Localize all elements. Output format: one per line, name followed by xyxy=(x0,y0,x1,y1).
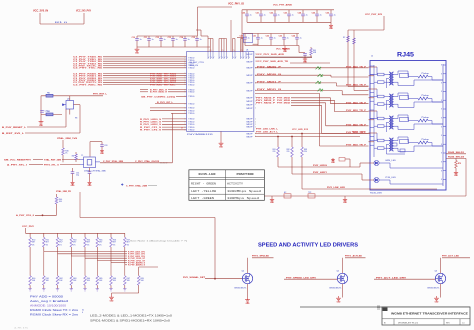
svg-text:R_PHY_CF2_S: R_PHY_CF2_S xyxy=(140,130,162,132)
title block side mark xyxy=(377,306,380,309)
svg-text:PHY1_XTL_O: PHY1_XTL_O xyxy=(44,164,59,166)
resistor RA6 top 4.7K xyxy=(96,233,98,237)
ground array column xyxy=(83,288,86,290)
svg-text:TXD0: TXD0 xyxy=(188,111,194,113)
ground array xyxy=(111,295,113,297)
svg-text:.1u: .1u xyxy=(291,15,294,17)
capacitor C11 0.1uF xyxy=(148,36,150,39)
svg-text:V: V xyxy=(246,57,247,59)
transistor Q4 xyxy=(242,273,252,283)
svg-text:TXD0: TXD0 xyxy=(188,130,194,132)
svg-text:C12: C12 xyxy=(156,37,159,39)
svg-text:XTAL_25M_PD: XTAL_25M_PD xyxy=(56,190,72,193)
wire unit 2 secondary xyxy=(394,96,398,98)
svg-text:.1u: .1u xyxy=(273,38,276,40)
wire cap bank bus top xyxy=(137,35,198,37)
svg-text:LEFT -GREEN: LEFT -GREEN xyxy=(191,197,215,200)
svg-text:C3_PHY_TXC_R5: C3_PHY_TXC_R5 xyxy=(73,68,103,70)
ground C31 xyxy=(72,181,74,183)
wire fan row xyxy=(110,247,112,263)
wire lnk long xyxy=(302,188,437,190)
wire array top bus xyxy=(25,228,27,233)
capacitor CT4 center tap xyxy=(387,143,390,145)
resistor pullup group above U1 xyxy=(207,39,209,53)
svg-text:4K7: 4K7 xyxy=(46,242,49,244)
svg-text:17: 17 xyxy=(181,128,183,130)
svg-text:TXD0: TXD0 xyxy=(188,127,194,129)
svg-text:TXD0: TXD0 xyxy=(188,84,194,86)
svg-text:75ohm: 75ohm xyxy=(421,95,430,97)
svg-text:S/B_VCC_RESETPHY: S/B_VCC_RESETPHY xyxy=(4,159,32,161)
wire rj45 right bus xyxy=(442,64,444,186)
svg-text:Q4: Q4 xyxy=(242,271,245,273)
ground Q5 xyxy=(338,296,340,298)
svg-text:V: V xyxy=(213,57,214,59)
svg-text:PHY1_ACTLED: PHY1_ACTLED xyxy=(345,254,362,257)
wire pin row 107.9 xyxy=(150,107,187,109)
wire drain net Q6 xyxy=(442,257,470,259)
svg-text:A_PHY_CFG_0: A_PHY_CFG_0 xyxy=(16,214,35,217)
wire fan row xyxy=(43,247,45,252)
wire rj45 vcc L xyxy=(383,16,385,30)
svg-text:PHY/M88E1111: PHY/M88E1111 xyxy=(187,134,215,136)
svg-text:WGM8 ETHERNET TRANSCEIVER INTE: WGM8 ETHERNET TRANSCEIVER INTERFACE xyxy=(391,312,468,316)
svg-text:.1u: .1u xyxy=(277,15,280,17)
wire fan row xyxy=(70,247,72,256)
transformer T4 xyxy=(389,138,391,151)
svg-text:C21: C21 xyxy=(256,13,259,15)
svg-text:C_PHY_XTAL_25M: C_PHY_XTAL_25M xyxy=(126,185,147,188)
svg-text:.1u: .1u xyxy=(199,39,202,41)
wire unit 1 in xyxy=(369,66,378,68)
svg-text:PHY1_LNK: PHY1_LNK xyxy=(352,132,366,134)
svg-text:BSS138LT1: BSS138LT1 xyxy=(235,288,247,290)
svg-text:LEFT -YELLOW: LEFT -YELLOW xyxy=(191,190,217,193)
resistor RA7 top 4.7K xyxy=(110,233,112,237)
svg-text:PHY_MDI_TR_P: PHY_MDI_TR_P xyxy=(346,102,367,104)
svg-text:TXD0: TXD0 xyxy=(188,67,194,69)
svg-text:R1 0: R1 0 xyxy=(55,22,69,24)
svg-text:ANMODE: 10/100/1000: ANMODE: 10/100/1000 xyxy=(30,303,67,307)
wire PHY_MDI1_N xyxy=(255,90,342,92)
connector J2 RJ45 box xyxy=(370,61,446,191)
svg-text:VCC_LED_2V5: VCC_LED_2V5 xyxy=(292,129,309,131)
wire rj45 left bus xyxy=(373,65,375,157)
svg-text:.1u: .1u xyxy=(187,39,190,41)
wire gate driver 1 xyxy=(205,278,242,280)
resistor R82 xyxy=(291,137,293,148)
ground reset rail xyxy=(40,120,42,122)
svg-text:4K7: 4K7 xyxy=(73,242,76,244)
svg-text:VCC_PHY_SHD_AVD_TR: VCC_PHY_SHD_AVD_TR xyxy=(256,60,289,63)
ground chassis left xyxy=(271,196,273,198)
wire cap bank bus bottom xyxy=(137,46,210,48)
LED green in RJ45 xyxy=(374,160,379,165)
wire source Q4 xyxy=(247,284,249,298)
capacitor C15 0.1uF xyxy=(196,36,198,39)
wire chassis to shield xyxy=(465,158,467,196)
svg-text:C23: C23 xyxy=(284,13,287,15)
svg-text:PHY_MDI1_P: PHY_MDI1_P xyxy=(257,82,282,84)
wire dvdd bus bottom xyxy=(245,45,299,47)
svg-text:VCC_PHY_IO: VCC_PHY_IO xyxy=(228,3,244,6)
svg-text:1.0: 1.0 xyxy=(462,322,465,324)
capacitor C13 0.1uF xyxy=(172,36,174,39)
svg-text:8: 8 xyxy=(441,135,442,137)
svg-text:PHY_LEDG: PHY_LEDG xyxy=(313,165,328,167)
ground mid small xyxy=(332,159,334,161)
svg-text:V: V xyxy=(224,57,225,59)
svg-text:TXD0: TXD0 xyxy=(188,121,194,123)
wire led row 2 xyxy=(255,136,360,138)
wire long net to LED driver 1 xyxy=(80,217,215,219)
svg-text:PHY_ACT_LED: PHY_ACT_LED xyxy=(442,254,459,257)
svg-text:C20: C20 xyxy=(45,111,48,113)
svg-text:POSITION: POSITION xyxy=(237,173,255,176)
svg-text:B_PHY_RESET_L: B_PHY_RESET_L xyxy=(2,127,27,129)
svg-text:R_PHY_LED1_S: R_PHY_LED1_S xyxy=(140,122,162,124)
wire fan row xyxy=(96,247,98,260)
svg-text:C11: C11 xyxy=(144,37,147,39)
wire rgmii rx row xyxy=(103,84,187,86)
svg-text:C30: C30 xyxy=(240,36,243,38)
wire signal det stub xyxy=(139,266,158,268)
svg-text:C13: C13 xyxy=(168,37,171,39)
capacitor C12 0.1uF xyxy=(160,36,162,39)
transistor Q6 xyxy=(435,273,445,283)
svg-text:RIGHT - GREEN: RIGHT - GREEN xyxy=(191,183,217,186)
capacitor bank DVDD row2 xyxy=(242,33,299,35)
ground dvdd bank xyxy=(284,46,286,47)
U1 bottom pin + ground xyxy=(220,131,222,141)
svg-text:V: V xyxy=(241,57,242,59)
svg-text:LED_2-MODE1 & LED_1-MODE1=TX 1: LED_2-MODE1 & LED_1-MODE1=TX 10KB=1x0 xyxy=(90,315,173,318)
svg-text:VCC_PHY: VCC_PHY xyxy=(22,226,35,228)
svg-text:C32: C32 xyxy=(266,36,269,38)
svg-text:E2: E2 xyxy=(284,192,286,194)
svg-text:PHY_LEDY: PHY_LEDY xyxy=(313,172,328,174)
svg-text:R_PHY_LED0_S: R_PHY_LED0_S xyxy=(140,119,162,121)
svg-text:X_PHY_XTAL_25M: X_PHY_XTAL_25M xyxy=(103,160,123,163)
svg-text:TXD0: TXD0 xyxy=(188,92,194,94)
svg-text:TP2: TP2 xyxy=(308,192,311,194)
svg-text:4K7: 4K7 xyxy=(87,242,90,244)
wire unit 4 secondary xyxy=(394,140,398,142)
ground array column xyxy=(70,288,73,290)
svg-text:R_PHY_ADDR1_S: R_PHY_ADDR1_S xyxy=(128,264,146,267)
resistor RT2 series xyxy=(378,95,385,98)
ground array column xyxy=(28,288,31,290)
svg-text:V: V xyxy=(249,57,250,59)
wire reset net upper xyxy=(41,95,103,97)
ground array column xyxy=(42,288,45,290)
svg-text:V: V xyxy=(222,57,223,59)
svg-text:BSS138LT1: BSS138LT1 xyxy=(330,288,342,290)
wire xtal top branch xyxy=(90,141,99,143)
wire gate Q6 xyxy=(374,278,435,280)
svg-text:.1u: .1u xyxy=(247,38,250,40)
wire xtal vcc xyxy=(62,140,64,148)
resistor RB2 bottom 10K xyxy=(43,276,46,286)
svg-text:PHY_MDI2: PHY_MDI2 xyxy=(277,103,291,105)
resistor RA8 top 4.7K xyxy=(124,233,126,237)
ground chassis right xyxy=(344,196,346,198)
wire unit 2 in xyxy=(369,88,378,90)
svg-text:PHY_SPEED_LED_DRV: PHY_SPEED_LED_DRV xyxy=(286,277,317,279)
ground array column xyxy=(56,288,59,290)
svg-text:C3_PHY_RXC_R5: C3_PHY_RXC_R5 xyxy=(73,84,103,86)
resistor RB1 bottom 10K xyxy=(29,276,32,286)
svg-text:100Mbps Speed: 100Mbps Speed xyxy=(227,197,260,200)
svg-text:R_PHY_LED2_S: R_PHY_LED2_S xyxy=(140,124,162,126)
svg-text:PHY_RXC: PHY_RXC xyxy=(150,84,163,86)
svg-text:Y1: Y1 xyxy=(81,155,83,157)
svg-text:B_PHY_INT_L: B_PHY_INT_L xyxy=(157,102,174,104)
wire PHY_MDI1_P xyxy=(255,82,337,84)
svg-text:C33: C33 xyxy=(279,36,282,38)
svg-text:4K7: 4K7 xyxy=(99,242,102,244)
resistor RA4 top 4.7K xyxy=(70,233,72,237)
svg-text:R8: R8 xyxy=(75,118,77,120)
svg-text:C22: C22 xyxy=(270,13,273,15)
diode pack D4 esd xyxy=(318,89,323,92)
wire VCC riser xyxy=(197,7,199,36)
svg-text:TXD0: TXD0 xyxy=(188,113,194,115)
resistor RA3 top 4.7K xyxy=(57,233,59,237)
capacitor CT1 center tap xyxy=(387,77,390,79)
svg-text:PHY_MDI_TR_P: PHY_MDI_TR_P xyxy=(346,110,367,112)
svg-text:PHY_RXC_: PHY_RXC_ xyxy=(164,84,177,86)
svg-text:.1u: .1u xyxy=(286,38,289,40)
svg-text:PHY_SIGNAL_DET: PHY_SIGNAL_DET xyxy=(183,276,206,279)
svg-text:8: 8 xyxy=(441,65,442,67)
resistor R70 shield xyxy=(455,158,457,160)
resistor R9 signal det xyxy=(138,267,140,276)
ground array column xyxy=(96,288,99,290)
capacitor C14 0.1uF xyxy=(184,36,186,39)
svg-text:TXD0: TXD0 xyxy=(188,103,194,105)
svg-text:8: 8 xyxy=(441,109,442,111)
svg-text:25MHZ_CRYSTAL_SMD: 25MHZ_CRYSTAL_SMD xyxy=(84,170,107,173)
svg-text:PHY_MDI_TR_P: PHY_MDI_TR_P xyxy=(346,124,367,126)
wire drain net Q5 xyxy=(345,257,366,259)
wire unit 4 in xyxy=(369,132,378,134)
resistor RT1 series xyxy=(378,73,385,76)
svg-text:C26: C26 xyxy=(326,13,329,15)
capacitor CT2 center tap xyxy=(387,99,390,101)
svg-text:See Note 1 (Bootstrap Disable: See Note 1 (Bootstrap Disable ? ?) xyxy=(130,240,187,243)
svg-text:C25: C25 xyxy=(312,13,315,15)
svg-text:C34: C34 xyxy=(292,35,295,38)
svg-text:75ohm: 75ohm xyxy=(421,139,430,141)
svg-text:V: V xyxy=(227,57,228,59)
U1 top pin ticks xyxy=(207,52,209,59)
svg-text:8: 8 xyxy=(441,126,442,128)
transformer T3 xyxy=(389,116,391,129)
svg-text:RJ45-LED: RJ45-LED xyxy=(199,173,217,176)
svg-text:Q6: Q6 xyxy=(435,271,438,273)
svg-text:C15: C15 xyxy=(192,37,195,39)
svg-text:PHY_MDI_TR_P: PHY_MDI_TR_P xyxy=(346,67,367,69)
svg-text:PHY_ACT_LED_DRV: PHY_ACT_LED_DRV xyxy=(376,276,407,279)
ground cap bank xyxy=(136,47,138,49)
svg-text:C20: C20 xyxy=(242,13,245,15)
svg-text:8: 8 xyxy=(441,153,442,155)
wire rgmii rx row xyxy=(103,81,187,83)
wire pin row 103.6 xyxy=(155,103,187,105)
svg-text:U1: U1 xyxy=(246,50,248,52)
resistor RA5 top 4.7K xyxy=(84,233,86,237)
svg-text:RGMII Clock Skew RX = 2ns: RGMII Clock Skew RX = 2ns xyxy=(30,312,79,316)
ground C32 xyxy=(89,181,91,183)
svg-text:B_RST_2V5_L: B_RST_2V5_L xyxy=(2,133,25,135)
svg-text:PHY_MDI_TR_P: PHY_MDI_TR_P xyxy=(346,145,367,147)
svg-text:XTAL_RST_25M: XTAL_RST_25M xyxy=(44,158,61,161)
resistor RA1 top 4.7K xyxy=(29,233,31,237)
svg-text:8: 8 xyxy=(441,74,442,76)
transformer T2 xyxy=(389,94,391,107)
capacitor C10 0.1uF xyxy=(136,36,138,39)
resistor R81 xyxy=(277,137,279,148)
wire PHY_MDI0_N xyxy=(255,74,331,76)
svg-text:PHY_MDI0_N: PHY_MDI0_N xyxy=(257,74,282,76)
transformer T1 xyxy=(389,72,391,85)
wire unit 1 secondary xyxy=(394,74,398,76)
transistor Q5 xyxy=(337,273,347,283)
ground channel top xyxy=(304,57,306,59)
svg-text:V: V xyxy=(235,57,236,59)
svg-text:RGMII Clock Skew TX = 2ns: RGMII Clock Skew TX = 2ns xyxy=(30,308,79,312)
svg-text:.1u: .1u xyxy=(163,39,166,41)
resistor RB4 bottom 10K xyxy=(70,276,73,286)
svg-text:GB_PHY_CONFIG_LDDQ: GB_PHY_CONFIG_LDDQ xyxy=(141,96,176,98)
transistor Q3 reset buffer xyxy=(66,101,74,110)
ferrite bead FB2 xyxy=(46,94,53,97)
svg-text:8: 8 xyxy=(441,179,442,181)
op-amp U1 PHY M88E1111 box xyxy=(187,52,254,132)
resistor R40 pulldown xyxy=(56,194,58,197)
svg-text:PHY_MDI1_N: PHY_MDI1_N xyxy=(257,89,282,91)
svg-text:C24: C24 xyxy=(298,12,301,15)
svg-text:V: V xyxy=(208,57,209,59)
wire to channel top xyxy=(298,46,300,53)
svg-text:VCC_PHY_AVDD: VCC_PHY_AVDD xyxy=(273,3,292,6)
resistor RB7 bottom 10K xyxy=(110,276,113,286)
ground array column xyxy=(123,288,126,290)
wire PHY_MDI0_P xyxy=(255,67,369,69)
capacitor C33 xyxy=(101,142,103,145)
svg-text:VCC_2V5_PHY: VCC_2V5_PHY xyxy=(76,9,91,13)
svg-text:R_PHY_CF1_S: R_PHY_CF1_S xyxy=(140,127,162,129)
svg-text:C_PHY_XTAL_OSC25: C_PHY_XTAL_OSC25 xyxy=(135,160,160,163)
svg-text:.1u: .1u xyxy=(260,38,263,40)
svg-text:.1u: .1u xyxy=(299,38,302,40)
wire fan row xyxy=(124,247,126,265)
svg-text:FB2: FB2 xyxy=(47,92,50,94)
svg-text:R2: R2 xyxy=(343,37,345,39)
svg-text:8: 8 xyxy=(441,170,442,172)
capacitor CT3 center tap xyxy=(387,121,390,123)
wire fan row xyxy=(57,247,59,254)
svg-text:220: 220 xyxy=(273,151,276,153)
svg-text:22p: 22p xyxy=(76,175,79,177)
svg-text:BSS138LT1: BSS138LT1 xyxy=(428,288,440,290)
resistor R46 RJ45 vcc xyxy=(347,36,350,42)
title block xyxy=(382,307,470,325)
resistor RB8 bottom 10K xyxy=(124,276,127,286)
svg-text:PHY_LED_ACT_L: PHY_LED_ACT_L xyxy=(256,130,279,133)
svg-text:RJ45-LNK: RJ45-LNK xyxy=(370,193,383,195)
svg-text:8: 8 xyxy=(441,91,442,93)
resistor RB6 bottom 10K xyxy=(96,276,99,286)
diode pack D3 esd xyxy=(316,81,321,84)
svg-text:PHY ADD = 00000: PHY ADD = 00000 xyxy=(30,294,64,298)
wire rgmii rx row xyxy=(103,75,187,77)
crystal Y1 25MHz xyxy=(84,157,96,168)
svg-text:4K7: 4K7 xyxy=(32,242,35,244)
diode pack D2 esd xyxy=(318,74,323,77)
resistor RT4 series xyxy=(378,139,385,142)
svg-text:VCC_PHY_2V5: VCC_PHY_2V5 xyxy=(365,14,383,16)
svg-text:.1u: .1u xyxy=(263,15,266,17)
svg-text:4.7K 1%: 4.7K 1% xyxy=(14,328,28,330)
svg-text:V: V xyxy=(233,57,234,59)
wire xtal pin row xyxy=(171,112,187,114)
svg-text:.1u: .1u xyxy=(151,39,154,41)
svg-text:TXD0: TXD0 xyxy=(188,119,194,121)
filter L1 box xyxy=(244,34,253,43)
svg-text:8: 8 xyxy=(441,82,442,84)
svg-text:75ohm: 75ohm xyxy=(421,73,430,75)
svg-text:220: 220 xyxy=(287,151,290,153)
ferrite E2 xyxy=(284,194,291,198)
svg-text:V: V xyxy=(219,57,220,59)
frame bottom line xyxy=(300,306,470,308)
ferrite bead FB3 xyxy=(46,113,53,116)
wire unit 3 in xyxy=(369,110,378,112)
wire RGMII TX bundle xyxy=(103,56,187,58)
wire rj45 left pins xyxy=(370,65,374,67)
capacitor C31 22p xyxy=(72,168,74,172)
svg-text:4: 4 xyxy=(82,312,83,314)
wire cap feed down xyxy=(230,20,232,52)
resistor RT3 series xyxy=(378,117,385,120)
table LED legend xyxy=(189,170,265,201)
ground Q4 xyxy=(247,298,249,300)
svg-text:.1u: .1u xyxy=(319,15,322,17)
resistor R83 xyxy=(301,134,303,148)
wire unit 3 secondary xyxy=(394,118,398,120)
svg-text:PHY_MDI_TR_P: PHY_MDI_TR_P xyxy=(346,85,367,87)
test point TP1 xyxy=(121,183,123,185)
svg-text:RJ45: RJ45 xyxy=(397,52,415,59)
resistor RA2 top 4.7K xyxy=(43,233,45,237)
svg-text:PHY_LNK_LED: PHY_LNK_LED xyxy=(327,187,346,189)
resistor R30 xyxy=(62,148,65,155)
svg-text:C14: C14 xyxy=(180,36,183,39)
svg-text:YLW_LED: YLW_LED xyxy=(385,177,397,179)
resistor RB3 bottom 10K xyxy=(56,276,59,286)
capacitor C20 xyxy=(40,110,44,112)
wire avdd bus bottom xyxy=(247,21,331,23)
capacitor C40 xyxy=(303,53,307,55)
svg-text:CFG_LN: CFG_LN xyxy=(189,65,199,67)
svg-text:C33: C33 xyxy=(104,145,107,147)
wire pin row 110.7 xyxy=(150,110,187,112)
svg-text:B_PHY_MDIO_R: B_PHY_MDIO_R xyxy=(150,92,168,94)
svg-text:8: 8 xyxy=(441,118,442,120)
wire to yellow led xyxy=(292,173,362,175)
